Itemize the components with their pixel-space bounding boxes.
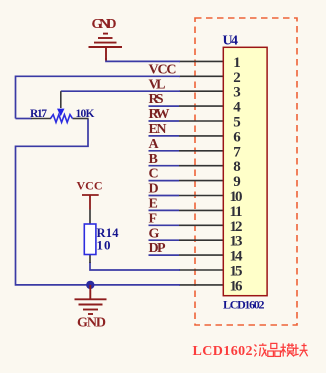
svg-text:VCC: VCC bbox=[149, 62, 177, 77]
svg-text:9: 9 bbox=[233, 174, 241, 190]
svg-text:2: 2 bbox=[233, 70, 241, 86]
svg-text:15: 15 bbox=[230, 264, 243, 280]
svg-text:B: B bbox=[149, 152, 158, 167]
svg-text:DP: DP bbox=[149, 241, 166, 256]
svg-text:R17: R17 bbox=[30, 108, 47, 120]
svg-text:VCC: VCC bbox=[77, 179, 103, 193]
svg-text:F: F bbox=[149, 211, 158, 226]
svg-text:C: C bbox=[149, 167, 159, 182]
svg-text:LCD1602: LCD1602 bbox=[223, 297, 265, 311]
svg-text:3: 3 bbox=[233, 85, 241, 101]
svg-text:5: 5 bbox=[233, 115, 241, 131]
svg-text:4: 4 bbox=[233, 100, 241, 116]
svg-text:RW: RW bbox=[149, 107, 170, 122]
svg-text:6: 6 bbox=[233, 129, 241, 145]
svg-text:10K: 10K bbox=[76, 108, 95, 120]
svg-text:7: 7 bbox=[233, 144, 241, 160]
svg-text:16: 16 bbox=[230, 278, 244, 294]
svg-text:GND: GND bbox=[77, 316, 106, 331]
svg-text:VL: VL bbox=[149, 77, 166, 92]
svg-text:10: 10 bbox=[230, 189, 243, 205]
svg-text:EN: EN bbox=[149, 122, 167, 137]
svg-text:LCD1602: LCD1602 bbox=[193, 344, 253, 359]
svg-text:G: G bbox=[149, 226, 160, 241]
svg-text:A: A bbox=[149, 137, 160, 152]
svg-text:E: E bbox=[149, 197, 158, 212]
svg-text:D: D bbox=[149, 182, 159, 197]
svg-text:GND: GND bbox=[92, 17, 117, 32]
svg-text:14: 14 bbox=[230, 249, 244, 265]
svg-text:1: 1 bbox=[233, 55, 241, 71]
svg-text:11: 11 bbox=[230, 204, 243, 220]
svg-text:U4: U4 bbox=[223, 34, 239, 49]
svg-text:13: 13 bbox=[230, 234, 243, 250]
svg-text:12: 12 bbox=[230, 219, 243, 235]
svg-text:RS: RS bbox=[149, 92, 164, 107]
svg-text:10: 10 bbox=[97, 238, 111, 253]
svg-text:8: 8 bbox=[233, 159, 241, 175]
